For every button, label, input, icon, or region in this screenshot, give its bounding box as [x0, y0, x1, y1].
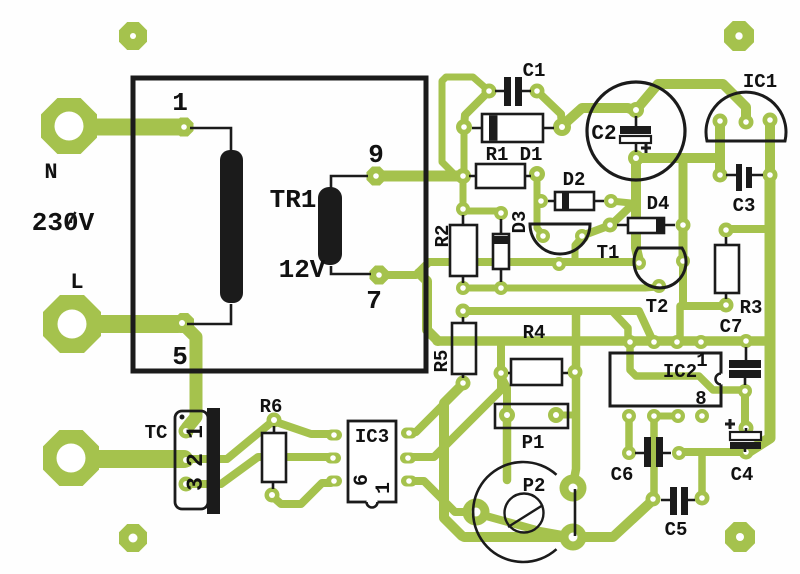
pad C5 right	[695, 491, 710, 506]
svg-text:1: 1	[172, 88, 188, 118]
pad C2 minus	[628, 150, 644, 166]
wire R4 leads	[508, 372, 568, 375]
terminal pad N	[41, 98, 97, 154]
pad T1 base	[536, 229, 550, 243]
svg-text:2: 2	[183, 453, 209, 467]
resistor R5 body	[452, 323, 476, 374]
svg-text:1: 1	[696, 350, 707, 372]
wire R5 bottom column x443	[444, 384, 463, 536]
pad P1 right	[548, 407, 564, 423]
diode D4 body	[628, 218, 664, 233]
wire C1 leads	[495, 90, 531, 93]
wire IC2 pin8 to C6 left	[625, 417, 633, 452]
wire R1 right pad to T1 left pad	[537, 175, 543, 235]
diode D4 band	[656, 219, 663, 232]
pad R1 right	[529, 166, 545, 182]
wire R6 top pad to IC3 top-left pad	[276, 422, 331, 434]
potentiometer P2 outline	[473, 462, 556, 562]
wire TC pin3 to IC3 mid-left pad	[186, 457, 330, 484]
wire junction to R2 top	[460, 177, 467, 208]
wire D1 right pad to C2 top	[562, 108, 635, 126]
pad IC2 pin7	[671, 409, 685, 423]
wire IC2 internal trace	[630, 343, 744, 390]
svg-text:TR1: TR1	[270, 185, 317, 215]
pad IC3 pin1	[401, 428, 417, 439]
wire T1 right pad down	[575, 237, 582, 259]
pad D2 right	[604, 194, 618, 208]
pad IC2 pin2	[670, 335, 684, 349]
connector TC pin1 dot	[180, 415, 185, 420]
svg-text:P2: P2	[523, 475, 546, 497]
capacitor C2 outline	[587, 82, 685, 180]
diode D1 cathode band	[489, 115, 498, 140]
pad R4 left	[494, 366, 509, 381]
capacitor C4 top plate	[730, 432, 761, 440]
pad C7 bottom	[738, 384, 752, 398]
pad C4 top	[739, 421, 754, 436]
svg-text:9: 9	[368, 140, 384, 170]
wire C6 leads	[635, 452, 671, 455]
svg-text:C7: C7	[720, 316, 743, 338]
wire D2 leads	[548, 200, 604, 203]
pad P1 left	[499, 407, 515, 423]
pad IC3 pin4	[326, 476, 342, 487]
pad IC3 pin3	[401, 476, 417, 487]
potentiometer P2 shaft circle	[505, 494, 544, 533]
svg-text:T2: T2	[646, 296, 669, 318]
capacitor C3 plates	[736, 164, 742, 191]
op-amp IC1 outline	[706, 92, 786, 141]
transformer TR1 outline	[133, 78, 426, 371]
capacitor C2 polarity mark	[641, 143, 651, 153]
transistor T1 outline	[530, 224, 590, 254]
svg-text:TC: TC	[145, 422, 168, 444]
wire y306 to R3 bottom	[683, 302, 725, 310]
wire bottom rail to C5 left	[464, 500, 653, 537]
wire R6 leads	[273, 426, 274, 489]
mounting pad top-left	[119, 22, 147, 50]
wire right column C3 to C4	[748, 175, 770, 452]
wire R3 leads	[725, 237, 728, 299]
svg-text:D3: D3	[509, 211, 531, 234]
wire R4 right column to P2	[573, 313, 576, 485]
wire C1 left pad diagonal	[464, 91, 489, 126]
pad TR1 pin 5	[174, 313, 194, 333]
wire P1 left pad up to R4 left pad	[502, 378, 507, 414]
pad IC1 pin right	[763, 113, 778, 128]
pad P2 top-right	[560, 475, 587, 502]
pad C4 bottom	[739, 445, 754, 460]
wire C2 top to IC1 centre pad	[636, 84, 746, 121]
pad D4 right	[676, 218, 691, 233]
pad T2 collector	[676, 254, 690, 268]
svg-text:R4: R4	[523, 322, 546, 344]
potentiometer P2 slot line	[508, 505, 543, 527]
wire D3 leads	[500, 219, 503, 282]
diode D1 body	[482, 114, 543, 142]
trimmer P1 outline	[495, 404, 568, 428]
op-amp IC3 body	[348, 421, 396, 502]
pad T1 collector	[575, 229, 589, 243]
svg-text:L: L	[70, 270, 83, 295]
wire R4 left pad to IC3 mid-right pad	[411, 376, 501, 457]
wire y311 branch to IC2 pin4	[612, 311, 628, 341]
wire pad7 rail to T2 left	[381, 262, 637, 275]
pad TC pin1	[179, 424, 194, 439]
svg-text:C3: C3	[733, 195, 756, 217]
pad R4 right	[568, 365, 583, 380]
pad T2 base	[632, 256, 646, 270]
wire R6 bottom pad to IC3 bottom-left pad	[272, 483, 331, 504]
wire C2 branch to D4 right and T2 right	[679, 158, 688, 260]
wire C2 bottom down to T2 left pad	[636, 158, 639, 261]
capacitor C1 plates	[504, 77, 511, 106]
wire C3 leads	[726, 174, 763, 177]
wire pad7 branch down to y341 rail	[419, 273, 438, 341]
capacitor C4 bottom plate	[730, 442, 761, 449]
pad P2 wiper	[463, 499, 490, 526]
pad D4 left	[603, 218, 618, 233]
pad IC1 pin left	[713, 114, 728, 129]
wire pad5 to TC pin1	[185, 326, 196, 428]
pad C2 plus	[628, 102, 644, 118]
svg-text:D1: D1	[520, 144, 543, 166]
svg-text:230V: 230V	[32, 208, 95, 238]
transistor T2 outline	[634, 248, 686, 288]
wire bottom-feed trace	[73, 450, 184, 468]
pad junction R1 left	[455, 168, 471, 184]
wire IC2 pin6-pin7 link	[654, 413, 677, 420]
pad TR1 pin 9	[367, 167, 386, 186]
capacitor C4 polarity mark	[725, 419, 735, 429]
svg-text:R1: R1	[486, 144, 509, 166]
wire R2 leads	[462, 215, 465, 283]
terminal pad TC-feed	[43, 430, 99, 486]
wire C1 right pad diagonal	[537, 91, 562, 126]
svg-text:3: 3	[183, 477, 209, 491]
pad junction D1 left	[456, 119, 472, 135]
capacitor C5 plates	[670, 487, 677, 515]
mounting pad top-right	[724, 21, 754, 51]
wire y288 rail R2-D3-T2 bottom	[463, 287, 658, 288]
pad C1 right	[530, 84, 545, 99]
wire junction to D4 left pad	[612, 204, 633, 224]
diode D3 body	[493, 234, 509, 269]
connector TC body	[175, 411, 208, 509]
wire y311 rail to IC2 pin3	[463, 311, 652, 339]
svg-text:D2: D2	[563, 169, 586, 191]
potentiometer P2 flat edge	[574, 489, 577, 536]
wire TC pin2 to R6 top pad	[186, 421, 273, 459]
svg-text:R6: R6	[260, 396, 283, 418]
wire C5 right stub up	[698, 455, 706, 497]
pad D2 left	[534, 194, 548, 208]
pad R2 top	[456, 202, 470, 216]
pad IC3 pin6	[326, 430, 342, 441]
pad IC3 pin2	[400, 453, 416, 464]
wire C7 leads	[745, 347, 746, 385]
pad C7 top	[739, 334, 753, 348]
svg-text:1: 1	[183, 425, 209, 439]
diode D3 band	[494, 236, 508, 244]
pad R6 bottom	[265, 488, 280, 503]
wire C7 bottom to C4 top	[741, 392, 749, 427]
wire R1 leads	[469, 175, 531, 178]
pad T1 emitter	[552, 257, 566, 271]
svg-text:R2: R2	[432, 225, 454, 248]
capacitor C7 plates	[729, 360, 761, 368]
pad TC pin2	[179, 453, 194, 468]
pad R2 bottom	[456, 281, 470, 295]
pad D3 top	[494, 206, 508, 220]
pad T2 emitter	[652, 279, 666, 293]
svg-text:IC1: IC1	[743, 71, 777, 93]
svg-text:P1: P1	[522, 432, 545, 454]
wire joint to IC3 top-right pad	[410, 404, 444, 433]
transformer TR1 secondary winding	[318, 187, 342, 265]
wire TR1 pin1 lead	[190, 128, 231, 150]
wire C2 bottom to IC1-left column	[636, 153, 719, 163]
svg-text:R5: R5	[431, 350, 453, 373]
pad IC1 pin centre	[739, 115, 754, 130]
wire D1 leads	[472, 127, 554, 130]
wire C6 right to C4 bottom	[679, 448, 745, 456]
wire C1 left loop to junction	[442, 77, 489, 175]
wire IC1 left pad to C3 left pad	[715, 121, 725, 175]
capacitor C6 plates	[644, 437, 651, 467]
svg-text:5: 5	[172, 342, 188, 372]
pad D1 right	[553, 118, 571, 136]
svg-text:R3: R3	[740, 297, 763, 319]
svg-text:C2: C2	[591, 123, 616, 146]
wire D4 left pad to T1 right pad	[584, 226, 608, 235]
svg-text:7: 7	[366, 286, 382, 316]
connector TC key bar	[207, 408, 220, 514]
capacitor C2 plus plate	[620, 126, 651, 134]
svg-text:12V: 12V	[279, 255, 326, 285]
pad IC2 pin6	[647, 409, 661, 423]
svg-text:C6: C6	[611, 464, 634, 486]
op-amp IC2 outline	[610, 353, 721, 406]
label 230V zero slash	[67, 212, 76, 227]
pad TR1 pin 1	[175, 118, 194, 137]
wire y341 power rail	[437, 336, 766, 346]
pad TR1 pin 7	[370, 266, 389, 285]
wire D2 right pad link	[611, 201, 631, 203]
svg-text:6: 6	[351, 474, 374, 486]
wire C4 leads	[745, 428, 746, 452]
wire TR1 pin7 lead	[331, 266, 371, 274]
svg-text:N: N	[44, 160, 57, 185]
wire D4 leads	[617, 224, 675, 227]
wire N-feed trace	[68, 119, 180, 136]
pad C1 left	[482, 84, 497, 99]
wire R5 leads	[462, 317, 465, 378]
svg-text:C5: C5	[665, 519, 688, 541]
diode D2 body	[555, 192, 594, 210]
mounting pad bottom-right	[725, 522, 755, 552]
diode D2 band	[562, 193, 569, 209]
wire IC2 pin7 to C5 left	[650, 417, 658, 497]
resistor R1 body	[476, 164, 525, 188]
pad C6 left	[622, 446, 636, 460]
wire R2 top to D3 top	[463, 208, 500, 215]
pad IC2 pin8	[695, 409, 709, 423]
terminal pad L	[43, 295, 101, 353]
wire C2 leads	[635, 116, 638, 152]
pad R5 bottom	[456, 376, 471, 391]
svg-text:IC2: IC2	[663, 361, 697, 383]
wire IC1 right pad to C3 right pad	[765, 120, 775, 175]
transformer TR1 primary winding	[220, 150, 243, 303]
pad R3 bottom	[719, 298, 734, 313]
svg-text:C1: C1	[523, 60, 546, 82]
resistor R6 body	[262, 433, 286, 482]
pad R3 top	[719, 223, 734, 238]
pad R6 top	[267, 413, 282, 428]
svg-text:C4: C4	[731, 464, 754, 486]
wire IC3 bottom-right pad to P2 left pad	[410, 481, 465, 512]
wire y341 to R4 left pad	[497, 342, 505, 372]
wire P1 right pad link	[556, 412, 574, 419]
pad C3 left	[713, 168, 728, 183]
wire T2 right pad down	[679, 263, 687, 305]
wire P1 left pad stub down	[503, 417, 512, 480]
resistor R4 body	[511, 359, 562, 385]
svg-text:1: 1	[373, 482, 396, 494]
wire pad9 to junction	[377, 171, 461, 182]
pad IC2 pin3	[647, 335, 661, 349]
wire junction column x464	[461, 128, 468, 176]
wire C5 leads	[661, 499, 695, 502]
pad D3 bottom	[494, 281, 508, 295]
resistor R3 body	[715, 245, 739, 293]
pad C3 right	[763, 168, 778, 183]
svg-text:T1: T1	[597, 242, 620, 264]
wire R3 top link	[730, 225, 768, 233]
resistor R2 body	[450, 225, 477, 276]
wire TR1 pin9 lead	[331, 176, 368, 188]
pad C5 left	[646, 492, 661, 507]
pad TC pin3	[179, 477, 194, 492]
op-amp IC2 notch	[716, 374, 727, 385]
svg-text:D4: D4	[647, 193, 670, 215]
wire L-feed trace	[74, 315, 178, 333]
wire TR1 pin5 lead	[187, 304, 231, 324]
pad C6 right	[672, 446, 686, 460]
pad P2 bottom-right	[560, 524, 587, 551]
pad IC3 pin5	[325, 453, 341, 464]
wire IC2 pin2 stub	[676, 306, 684, 340]
op-amp IC3 notch	[367, 497, 378, 508]
svg-text:8: 8	[695, 388, 706, 410]
pad IC2 pin4	[623, 335, 637, 349]
capacitor C2 minus plate	[620, 136, 651, 143]
mounting pad bottom-left	[119, 524, 147, 552]
pad IC2 pin5	[622, 409, 636, 423]
pad IC2 pin1	[694, 335, 708, 349]
wire P2 wiper diagonal	[479, 514, 568, 536]
svg-text:IC3: IC3	[355, 426, 389, 448]
pad R5 top	[456, 304, 471, 319]
